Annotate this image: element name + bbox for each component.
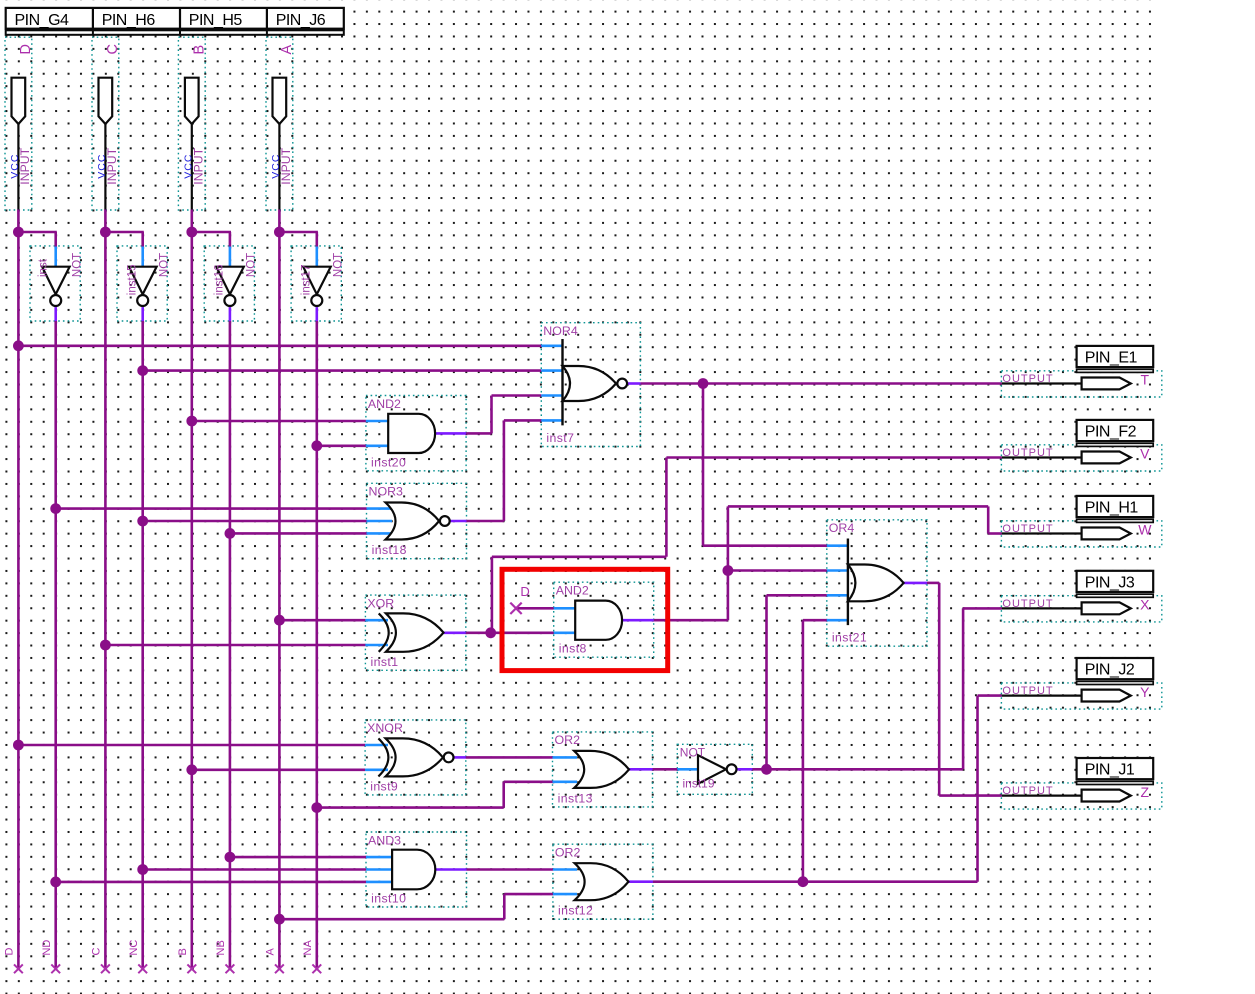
svg-text:D: D [18,44,34,54]
svg-text:NOT: NOT [333,253,345,277]
svg-text:PIN_J6: PIN_J6 [276,12,326,29]
svg-text:NOT: NOT [680,746,706,760]
svg-text:T: T [1141,372,1150,388]
svg-text:NA: NA [302,940,314,956]
svg-text:OR2: OR2 [555,733,581,747]
svg-text:A: A [279,45,295,55]
svg-text:NC: NC [128,940,140,956]
svg-text:C: C [91,948,103,956]
svg-text:PIN_J3: PIN_J3 [1085,574,1135,591]
svg-text:PIN_F2: PIN_F2 [1085,424,1137,441]
svg-text:OUTPUT: OUTPUT [1002,523,1053,535]
svg-text:OUTPUT: OUTPUT [1002,447,1053,459]
svg-text:AND2: AND2 [556,584,589,598]
svg-text:X: X [1140,597,1150,613]
svg-text:NOT: NOT [246,253,258,277]
svg-text:AND3: AND3 [368,833,401,847]
svg-text:A: A [265,948,277,956]
svg-text:V: V [1140,446,1150,462]
svg-text:inst20: inst20 [371,455,406,469]
svg-text:PIN_H5: PIN_H5 [189,12,243,29]
svg-text:PIN_J2: PIN_J2 [1085,662,1135,679]
svg-text:INPUT: INPUT [191,147,205,184]
svg-text:NOR3: NOR3 [369,485,404,499]
svg-text:inst17: inst17 [300,265,312,296]
svg-text:PIN_J1: PIN_J1 [1085,762,1135,779]
svg-text:inst12: inst12 [558,904,593,918]
svg-text:PIN_H6: PIN_H6 [102,12,156,29]
svg-text:NB: NB [215,940,227,955]
svg-text:W: W [1138,522,1152,538]
svg-text:Y: Y [1140,684,1150,700]
svg-text:inst19: inst19 [683,777,715,791]
svg-text:inst: inst [38,258,50,277]
svg-text:C: C [105,44,121,54]
svg-text:Z: Z [1141,784,1150,800]
svg-text:INPUT: INPUT [105,147,119,184]
svg-text:NOT: NOT [71,253,83,277]
svg-text:inst13: inst13 [558,791,593,805]
svg-text:inst15: inst15 [126,265,138,296]
svg-text:inst7: inst7 [546,431,574,445]
svg-text:inst10: inst10 [371,892,406,906]
svg-text:INPUT: INPUT [279,147,293,184]
svg-text:inst8: inst8 [559,642,587,656]
svg-text:XOR: XOR [367,596,394,610]
svg-text:NOR4: NOR4 [543,324,578,338]
svg-text:inst16: inst16 [214,265,226,296]
svg-text:OUTPUT: OUTPUT [1002,685,1053,697]
svg-text:inst9: inst9 [370,779,398,793]
svg-text:OUTPUT: OUTPUT [1002,373,1053,385]
svg-text:ND: ND [41,940,53,956]
svg-text:OUTPUT: OUTPUT [1002,785,1053,797]
svg-text:OR4: OR4 [829,521,855,535]
svg-text:NOT: NOT [158,253,170,277]
svg-text:D: D [4,948,16,956]
svg-text:AND2: AND2 [368,397,401,411]
svg-text:inst18: inst18 [372,543,407,557]
svg-text:inst21: inst21 [832,631,867,645]
svg-text:PIN_G4: PIN_G4 [15,12,70,29]
svg-text:OUTPUT: OUTPUT [1002,598,1053,610]
svg-text:D: D [520,584,529,599]
svg-text:XNOR: XNOR [367,721,403,735]
svg-text:B: B [177,948,189,955]
svg-text:OR2: OR2 [555,846,581,860]
svg-text:PIN_H1: PIN_H1 [1085,500,1139,517]
svg-text:PIN_E1: PIN_E1 [1085,350,1138,367]
svg-text:inst1: inst1 [371,655,399,669]
svg-text:INPUT: INPUT [18,147,32,184]
svg-text:B: B [192,45,208,55]
